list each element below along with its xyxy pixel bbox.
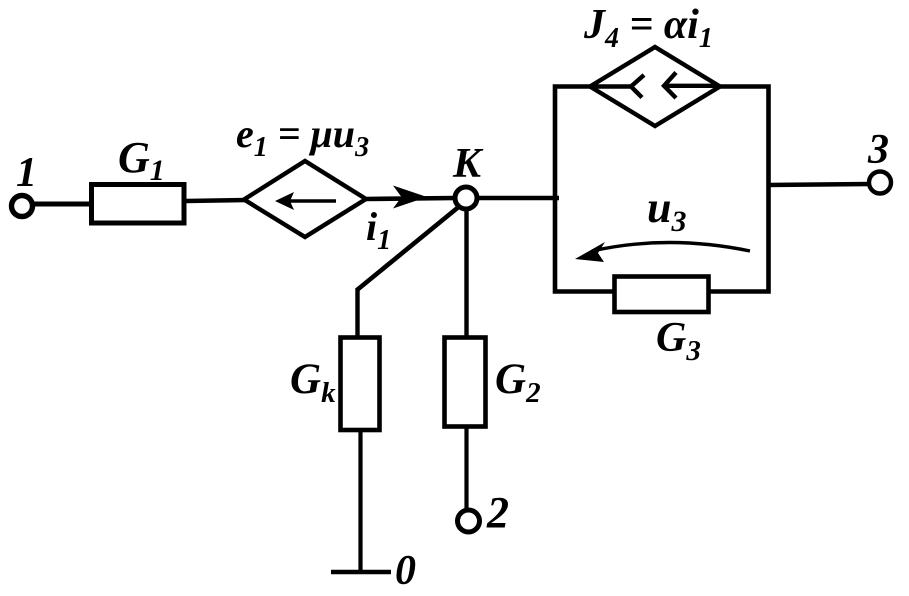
node 2 circle: [458, 510, 480, 532]
resistor Gk: [341, 338, 380, 431]
wire Gk to ground: [358, 430, 362, 572]
wire big rect to node 3: [767, 184, 870, 185]
node 1 terminal circle: [12, 196, 33, 217]
svg-text:K: K: [452, 141, 484, 187]
line + chevron arrows inside J4: [592, 84, 631, 88]
svg-text:3: 3: [867, 127, 889, 173]
wire G1 to diamond e1: [186, 200, 247, 201]
curved arrow u3: [592, 243, 750, 252]
ground bar: [331, 570, 391, 574]
arrowhead i1: [393, 186, 427, 209]
wire e1 to node K with current arrow: [366, 198, 455, 199]
arrow inside e1 pointing left: [283, 199, 336, 203]
wire G2 to node 2: [464, 426, 468, 512]
svg-text:J4 = αi1: J4 = αi1: [583, 2, 713, 54]
vertical wire from diagonal to Gk: [355, 288, 359, 337]
resistor G2: [445, 338, 486, 427]
big feedback rectangle: [555, 87, 769, 292]
resistor G1: [92, 185, 185, 224]
wire from node 1 to G1: [33, 202, 92, 207]
wire node K to big rect: [466, 196, 559, 201]
svg-text:2: 2: [486, 488, 509, 537]
node K circle: [455, 187, 477, 209]
vertical wire below K to G2: [464, 198, 468, 337]
svg-text:0: 0: [395, 548, 416, 591]
resistor G3: [615, 277, 709, 313]
diagonal wire K to Gk: [357, 205, 461, 290]
dependent voltage source e1 diamond: [244, 161, 366, 237]
node 3 circle: [869, 172, 891, 194]
svg-text:1: 1: [16, 150, 37, 196]
dependent current source J4 diamond: [590, 47, 720, 126]
